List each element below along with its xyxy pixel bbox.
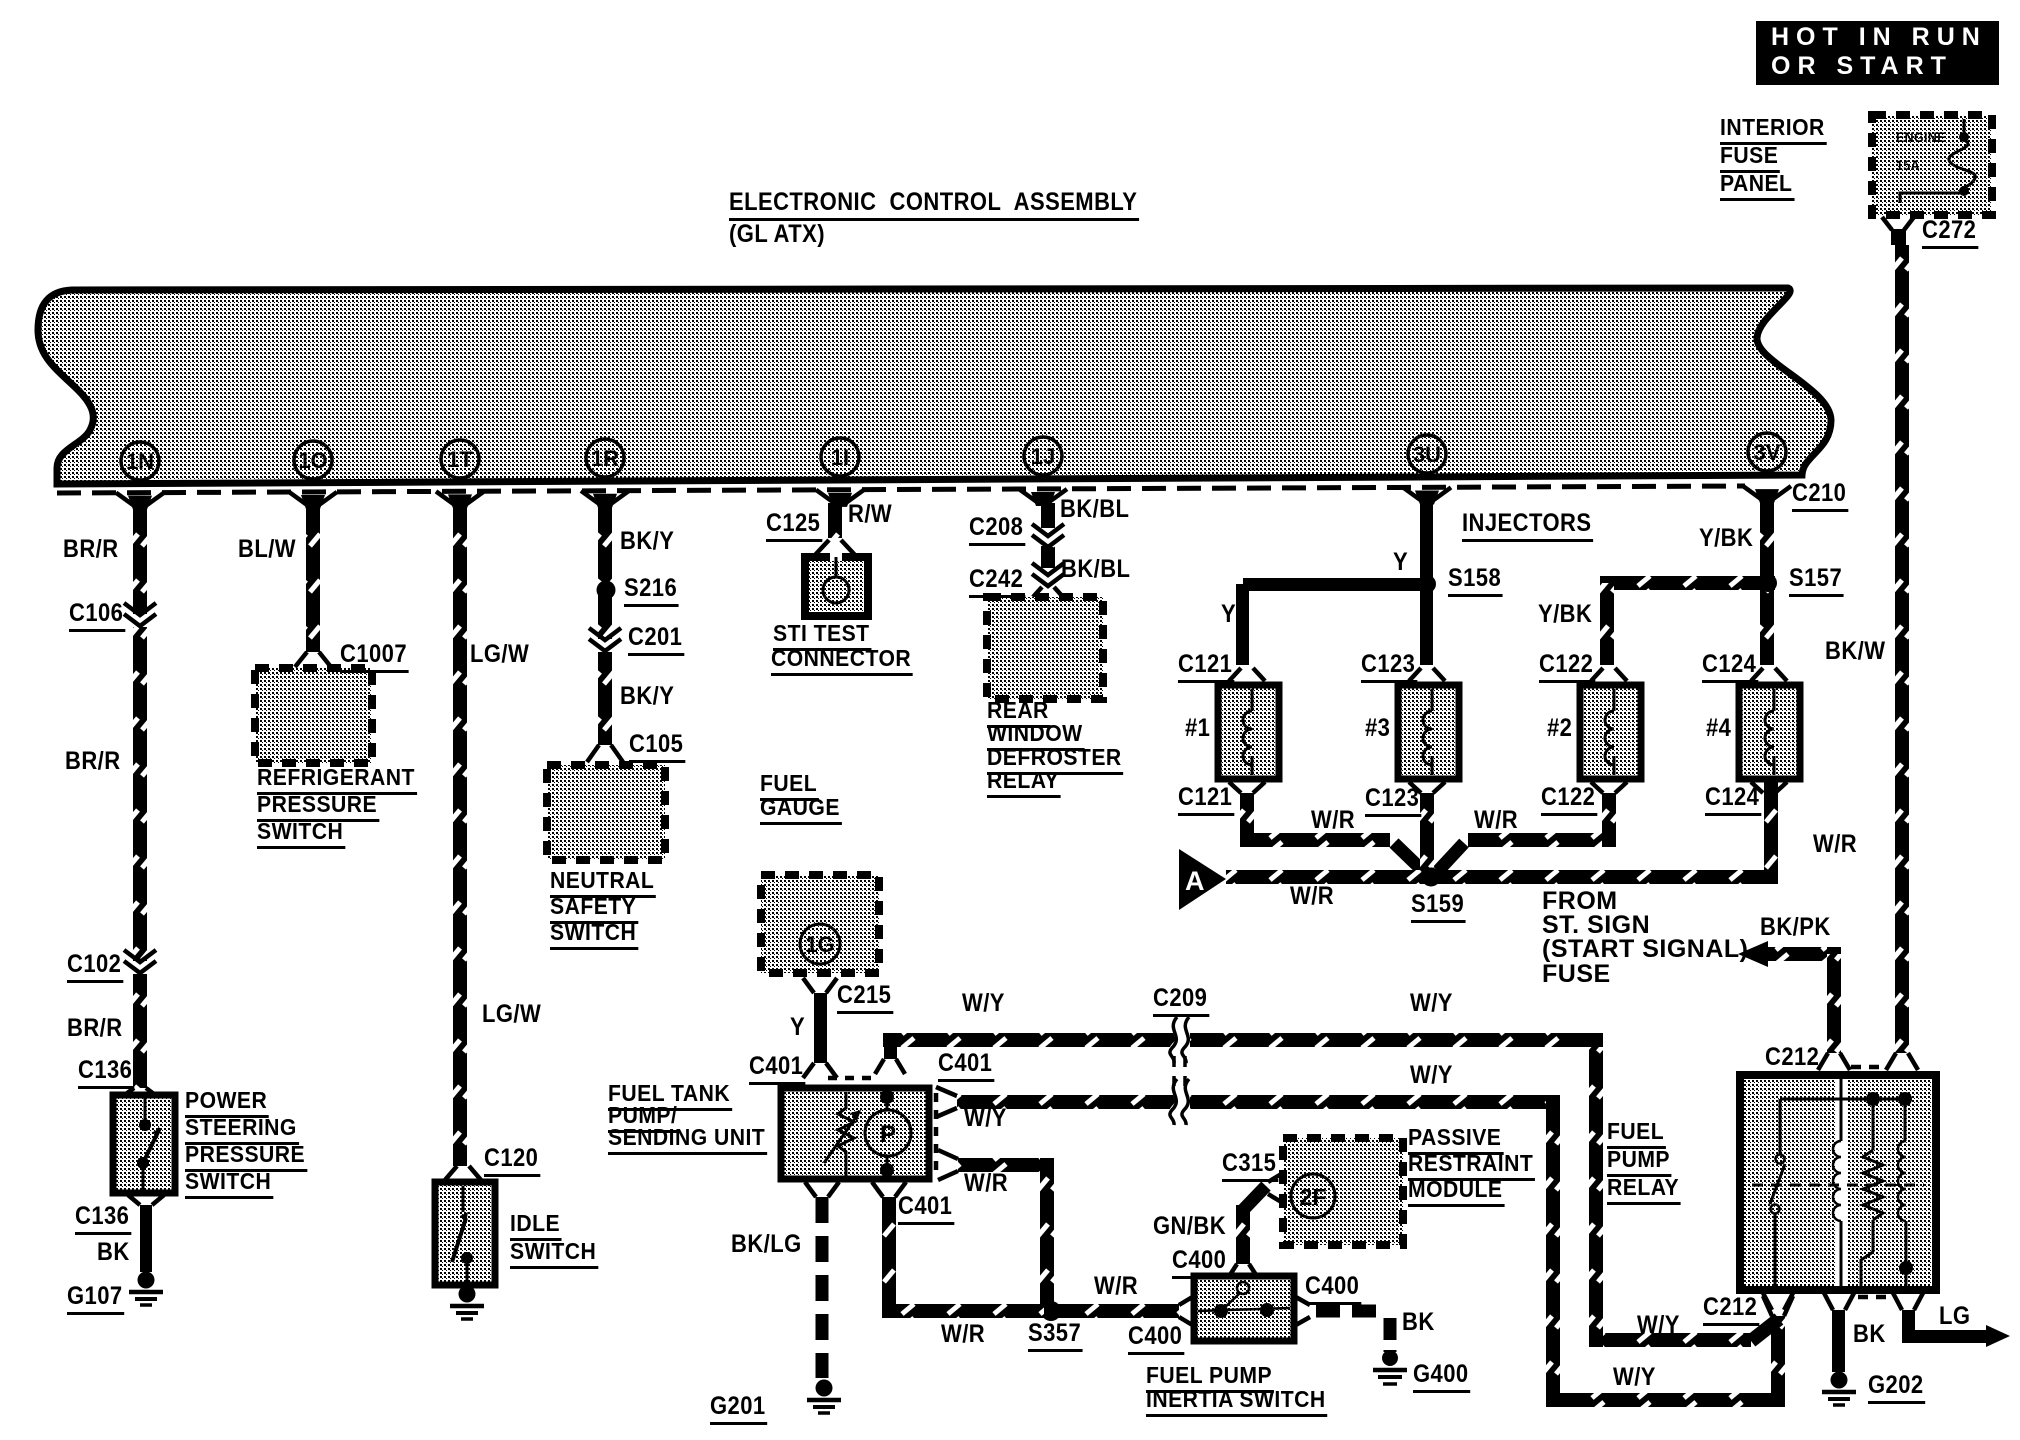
svg-text:1I: 1I <box>831 445 849 470</box>
svg-text:2F: 2F <box>1300 1184 1327 1210</box>
svg-text:1O: 1O <box>298 448 327 473</box>
svg-text:3V: 3V <box>1754 440 1781 465</box>
svg-text:3U: 3U <box>1413 442 1441 467</box>
svg-text:1N: 1N <box>126 449 154 474</box>
svg-text:A: A <box>1185 866 1205 896</box>
svg-text:1T: 1T <box>447 447 473 472</box>
svg-text:1J: 1J <box>1031 444 1055 469</box>
svg-text:1G: 1G <box>805 932 834 957</box>
svg-text:P: P <box>880 1121 896 1148</box>
svg-text:1R: 1R <box>591 446 619 471</box>
